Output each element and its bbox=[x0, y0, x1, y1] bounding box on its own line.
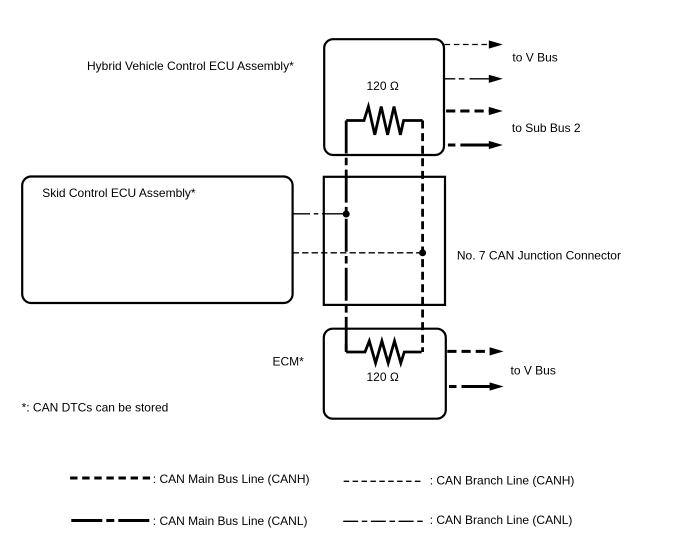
wire arrow 5 main CANH to V Bus bbox=[447, 350, 490, 353]
wire arrow 4 main CANL bbox=[448, 144, 489, 147]
wire CANL main bus vertical bbox=[345, 121, 348, 353]
svg-text:*: CAN DTCs can be stored: *: CAN DTCs can be stored bbox=[22, 401, 169, 415]
svg-text:to V Bus: to V Bus bbox=[512, 51, 557, 65]
svg-text:ECM*: ECM* bbox=[273, 354, 305, 368]
resistor R1 120 ohm bbox=[346, 107, 422, 135]
wire CANL branch from skid ECU bbox=[293, 213, 346, 215]
svg-text:No. 7 CAN Junction Connector: No. 7 CAN Junction Connector bbox=[457, 249, 621, 263]
legend sample branch CANH bbox=[344, 480, 423, 482]
ECU box U2 Skid Control ECU Assembly bbox=[22, 177, 292, 304]
node junction dot CANL bbox=[343, 211, 350, 218]
legend sample main CANH bbox=[70, 477, 151, 480]
wire CANH main bus vertical bbox=[421, 121, 424, 353]
svg-text:120 Ω: 120 Ω bbox=[367, 370, 399, 384]
node junction dot CANH bbox=[419, 249, 426, 256]
ECU box U3 ECM bbox=[324, 329, 446, 419]
svg-text:Skid Control ECU Assembly*: Skid Control ECU Assembly* bbox=[42, 186, 196, 200]
wire arrow 6 main CANL bbox=[449, 385, 490, 388]
wire arrow 2 branch CANL bbox=[445, 78, 489, 80]
ECU box U1 Hybrid Vehicle Control ECU Assembly bbox=[324, 39, 444, 155]
svg-text:Hybrid Vehicle Control ECU Ass: Hybrid Vehicle Control ECU Assembly* bbox=[87, 59, 294, 73]
svg-text:: CAN Main Bus Line (CANL): : CAN Main Bus Line (CANL) bbox=[153, 514, 308, 528]
svg-text:to Sub Bus 2: to Sub Bus 2 bbox=[512, 121, 581, 135]
svg-text:: CAN Branch Line (CANH): : CAN Branch Line (CANH) bbox=[430, 473, 575, 487]
legend sample branch CANL bbox=[343, 520, 424, 522]
resistor R2 120 ohm bbox=[346, 341, 421, 363]
svg-text:120 Ω: 120 Ω bbox=[367, 79, 399, 93]
wire CANH branch from skid ECU bbox=[293, 252, 421, 254]
svg-text:: CAN Branch Line (CANL): : CAN Branch Line (CANL) bbox=[430, 513, 573, 527]
legend sample main CANL bbox=[71, 519, 151, 522]
wire arrow 3 main CANH to Sub Bus 2 bbox=[446, 110, 489, 113]
junction box J1 No. 7 CAN Junction Connector bbox=[324, 177, 445, 305]
svg-text:: CAN Main Bus Line (CANH): : CAN Main Bus Line (CANH) bbox=[153, 472, 310, 486]
wire arrow 1 branch CANH to V Bus bbox=[445, 44, 489, 46]
svg-text:to V Bus: to V Bus bbox=[511, 363, 556, 377]
